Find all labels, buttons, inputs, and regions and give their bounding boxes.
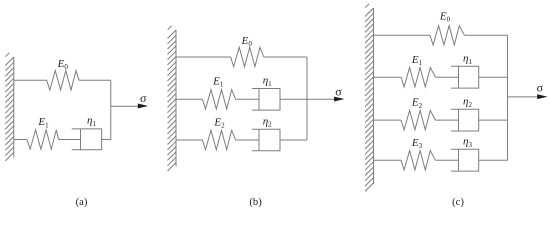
node bar (a) right connector (110, 80, 112, 139)
dashpot eta2 (c) (451, 109, 479, 131)
wire (a) piston rod (59, 139, 81, 141)
svg-text:η1: η1 (463, 53, 472, 66)
wire (c) branch4 right (479, 159, 508, 161)
wall (c) hatching (365, 4, 374, 192)
node bar (c) right connector (507, 35, 509, 160)
svg-text:E0: E0 (57, 58, 69, 71)
svg-text:η2: η2 (463, 96, 472, 109)
wire (c) branch2 rod (435, 76, 458, 78)
svg-text:E2: E2 (213, 116, 225, 129)
spring E1 (b) (202, 90, 235, 109)
wire (b) branch1 right (264, 56, 307, 58)
wall (b) fixed support (175, 30, 177, 167)
wire (b) branch3 right (280, 139, 307, 141)
svg-text:σ: σ (140, 91, 147, 105)
svg-text:E0: E0 (439, 11, 451, 24)
arrow sigma (a) (111, 105, 140, 107)
svg-text:η1: η1 (263, 75, 272, 88)
wire (c) branch4 left (374, 159, 402, 161)
wire (c) branch3 right (479, 119, 508, 121)
wire (c) branch4 rod (435, 159, 458, 161)
dashpot eta3 (c) (451, 149, 479, 171)
svg-text:E1: E1 (411, 54, 423, 67)
arrow sigma (c) (508, 96, 539, 98)
svg-text:σ: σ (335, 84, 342, 98)
spring E2 (b) (202, 130, 235, 149)
wire (a) bottom-right (102, 139, 111, 141)
svg-text:(c): (c) (452, 197, 464, 208)
dashpot eta1 (c) (451, 66, 479, 88)
svg-text:(a): (a) (76, 197, 88, 208)
svg-text:E3: E3 (411, 137, 423, 150)
wire (c) branch3 rod (435, 119, 458, 121)
wire (b) branch3 rod (236, 139, 259, 141)
wire (a) top-right (79, 79, 111, 81)
wire (b) branch2 rod (236, 98, 259, 100)
wire (c) branch2 left (374, 76, 402, 78)
dashpot eta2 (b) (252, 129, 280, 151)
svg-text:E1: E1 (212, 75, 224, 88)
wire (a) top-left (14, 79, 47, 81)
wire (c) branch3 left (374, 119, 402, 121)
dashpot eta1 (b) (252, 89, 280, 111)
dashpot eta1 (a) (72, 129, 102, 150)
wall (b) hatching (168, 26, 177, 171)
svg-text:(b): (b) (249, 197, 262, 208)
arrow sigma (b) (307, 98, 336, 100)
svg-text:σ: σ (537, 81, 544, 95)
wire (b) branch2 right (280, 98, 307, 100)
wall (a) hatching (5, 53, 14, 161)
svg-text:E0: E0 (241, 35, 253, 48)
wire (b) branch3 left (176, 139, 202, 141)
spring E3 (c) (401, 151, 435, 170)
wire (b) branch2 left (176, 98, 202, 100)
wall (c) fixed support (373, 8, 375, 184)
spring E0 (c) (430, 26, 465, 45)
wire (b) branch1 left (176, 56, 231, 58)
wire (c) branch2 right (479, 76, 508, 78)
spring E0 (a) (47, 71, 79, 90)
wall (a) fixed support (13, 57, 15, 158)
svg-text:E2: E2 (411, 97, 423, 110)
svg-text:η3: η3 (463, 136, 472, 149)
spring E1 (c) (401, 68, 435, 87)
svg-text:η2: η2 (263, 115, 272, 128)
svg-text:η1: η1 (87, 115, 96, 128)
node bar (b) right connector (306, 57, 308, 140)
wire (c) branch1 right (465, 34, 508, 36)
wire (a) bottom-left (14, 139, 27, 141)
spring E1 (a) (27, 130, 59, 149)
svg-text:E1: E1 (37, 116, 49, 129)
wire (c) branch1 left (374, 34, 431, 36)
spring E2 (c) (401, 110, 435, 129)
spring E0 (b) (231, 47, 264, 66)
